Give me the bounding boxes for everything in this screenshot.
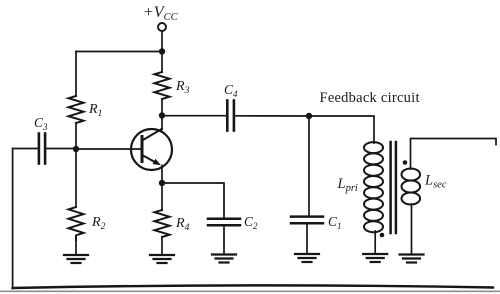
svg-text:Lsec: Lsec	[424, 173, 447, 191]
ground under R2	[64, 255, 88, 263]
wire base node to R2	[75, 149, 77, 207]
wire collector	[161, 116, 163, 130]
svg-text:R4: R4	[175, 216, 190, 233]
wire Lpri bottom to ground	[374, 231, 376, 253]
resistor R3	[155, 72, 190, 99]
ground under C2	[212, 255, 236, 263]
resistor R4	[155, 210, 190, 237]
label Feedback circuit	[320, 90, 420, 106]
wire C3 left lead	[13, 148, 38, 150]
capacitor C2	[208, 214, 258, 231]
wire tank node to C1	[308, 116, 310, 216]
wire Lsec top to output	[411, 139, 497, 170]
wire emitter node to R4	[161, 183, 163, 210]
svg-text:C3: C3	[34, 115, 48, 132]
ground under C1	[295, 254, 319, 262]
wire Lsec bottom to ground	[411, 204, 413, 254]
page artifact line	[0, 290, 500, 292]
svg-text:C2: C2	[244, 214, 258, 231]
ground under Lpri	[363, 254, 387, 262]
wire R3 to collector node	[161, 99, 163, 116]
ground under Lsec	[400, 255, 424, 263]
wire to R1 top	[75, 52, 77, 97]
inductor Lsec	[402, 169, 447, 205]
node collector junction	[159, 112, 165, 118]
svg-text:Lpri: Lpri	[337, 176, 358, 194]
capacitor C3	[34, 115, 48, 164]
wire C1 to ground	[306, 224, 308, 253]
phase dot secondary	[403, 160, 408, 165]
phase dot primary	[380, 233, 385, 238]
wire tank node to transformer	[309, 116, 374, 143]
wire left vertical	[12, 149, 14, 289]
node tank junction	[306, 113, 312, 119]
resistor R2	[69, 207, 106, 240]
svg-text:+VCC: +VCC	[143, 4, 179, 23]
label +VCC	[143, 4, 179, 23]
resistor R1	[69, 96, 103, 123]
wire R2 to ground	[75, 240, 77, 254]
wire emitter	[161, 166, 163, 184]
wire top horizontal	[76, 51, 162, 53]
wire C3 right lead	[47, 148, 76, 150]
wire C4 to tank node	[235, 115, 309, 117]
wire emitter node to C2	[162, 183, 224, 218]
svg-text:Feedback circuit: Feedback circuit	[320, 90, 420, 106]
transformer core	[391, 142, 396, 233]
node base junction	[73, 146, 79, 152]
wire C2 to ground	[223, 226, 225, 253]
inductor Lpri	[337, 142, 384, 232]
svg-text:R2: R2	[91, 215, 106, 232]
ground under R4	[150, 255, 174, 263]
capacitor C4	[224, 82, 238, 131]
wire VCC stem	[161, 31, 163, 51]
svg-text:R1: R1	[88, 102, 102, 119]
capacitor C1	[291, 214, 342, 231]
node emitter junction	[159, 180, 165, 186]
wire R1 bottom to base node	[75, 123, 77, 149]
svg-text:R3: R3	[175, 79, 190, 96]
transistor Q1	[131, 129, 172, 170]
svg-text:C4: C4	[224, 82, 238, 99]
wire R4 to ground	[161, 237, 163, 254]
svg-text:C1: C1	[328, 214, 342, 231]
wire bottom return	[13, 285, 493, 288]
wire base	[76, 148, 141, 150]
node collector-supply junction	[159, 48, 165, 54]
VCC terminal	[158, 23, 166, 31]
wire supply node to R3	[161, 52, 163, 73]
wire collector node to C4	[162, 115, 226, 117]
